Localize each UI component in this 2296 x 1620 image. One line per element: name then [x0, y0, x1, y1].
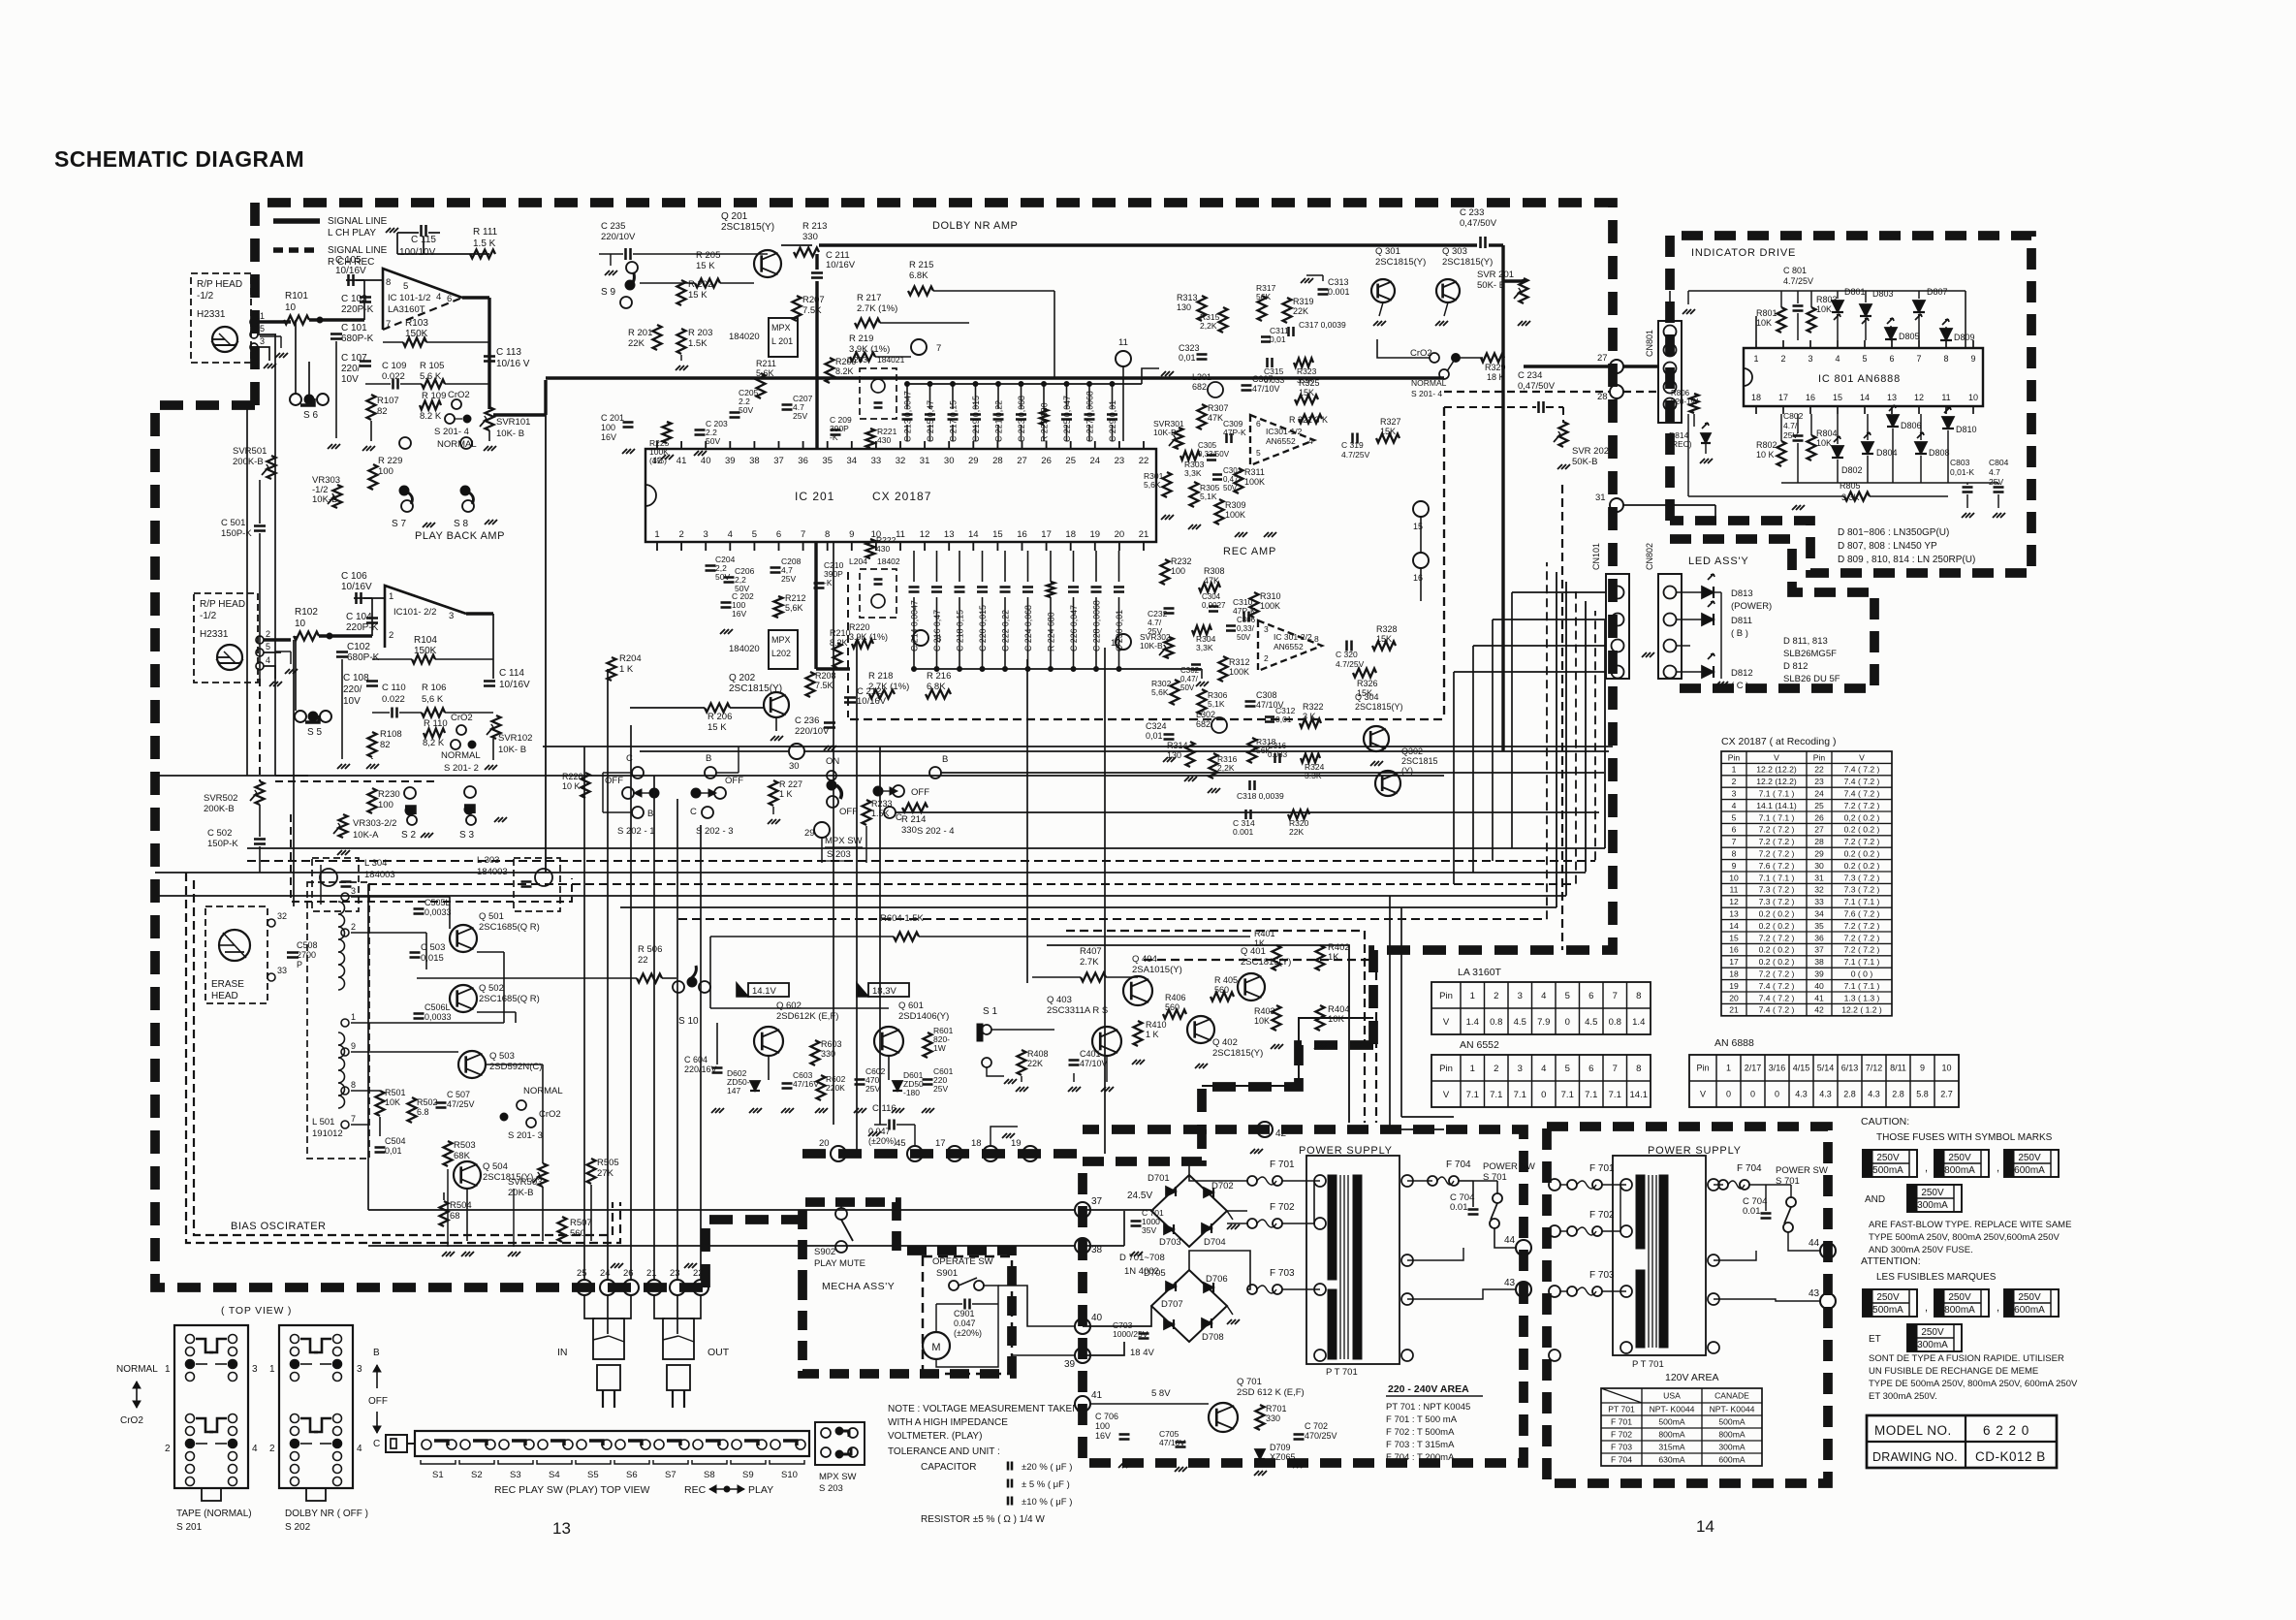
- svg-text:42: 42: [1275, 1128, 1287, 1139]
- svg-text:4.7/: 4.7/: [1783, 421, 1798, 430]
- svg-text:4: 4: [1308, 436, 1313, 446]
- svg-text:6: 6: [1732, 825, 1737, 835]
- svg-text:12.2 ( 1.2 ): 12.2 ( 1.2 ): [1841, 1005, 1882, 1015]
- svg-text:(Y): (Y): [1401, 766, 1413, 776]
- svg-text:0,01: 0,01: [1179, 353, 1196, 363]
- svg-text:250V: 250V: [2018, 1292, 2041, 1303]
- resistor R317: [1258, 296, 1267, 321]
- svg-text:25V: 25V: [1989, 477, 2003, 487]
- capacitor C301: [1212, 473, 1222, 476]
- capacitor C803: [1963, 486, 1973, 489]
- svg-text:C 223 0,068: C 223 0,068: [1017, 396, 1026, 442]
- resistor R803: [1808, 307, 1816, 333]
- svg-text:F 704 : T 200mA: F 704 : T 200mA: [1386, 1452, 1455, 1463]
- svg-text:4: 4: [728, 529, 733, 540]
- svg-text:17: 17: [1778, 393, 1788, 402]
- svg-text:10/16V: 10/16V: [335, 266, 366, 276]
- svg-text:7.4 ( 7.2 ): 7.4 ( 7.2 ): [1759, 1005, 1795, 1015]
- svg-text:12: 12: [920, 529, 930, 540]
- svg-text:7: 7: [1613, 991, 1618, 1001]
- CrO2 switch S201-4 top: [452, 399, 461, 409]
- svg-text:R 205: R 205: [696, 250, 720, 261]
- svg-text:S 1: S 1: [983, 1006, 997, 1017]
- svg-text:S 8: S 8: [454, 519, 468, 529]
- capacitor C317: [1287, 327, 1290, 336]
- resistor R505: [587, 1159, 596, 1184]
- svg-text:CN801: CN801: [1645, 330, 1654, 357]
- svg-text:2: 2: [351, 922, 356, 932]
- svg-text:0,47/: 0,47/: [1180, 675, 1199, 683]
- svg-text:SIGNAL LINE: SIGNAL LINE: [328, 216, 388, 227]
- svg-text:7.1 ( 7.1 ): 7.1 ( 7.1 ): [1759, 788, 1795, 798]
- svg-text:2.7K (1%): 2.7K (1%): [857, 303, 897, 314]
- dashed signal vertical 1612: [1561, 485, 1563, 950]
- svg-text:82: 82: [377, 406, 388, 417]
- svg-text:R308: R308: [1204, 566, 1225, 576]
- bus indicator bottom: [1781, 482, 1998, 484]
- svg-text:24: 24: [1814, 788, 1824, 798]
- capacitor C319: [1351, 433, 1354, 444]
- resistor R213: [794, 248, 819, 257]
- resistor R220: [852, 640, 873, 649]
- svg-text:34: 34: [847, 456, 858, 466]
- node 44 ps2: [1820, 1243, 1836, 1258]
- svg-text:7.2 ( 7.2 ): 7.2 ( 7.2 ): [1844, 921, 1880, 931]
- transistor Q602: [754, 1027, 783, 1056]
- svg-text:32: 32: [1814, 885, 1824, 895]
- svg-text:LED ASS'Y: LED ASS'Y: [1688, 556, 1749, 567]
- svg-text:,: ,: [1925, 1162, 1928, 1174]
- svg-text:2SA1015(Y): 2SA1015(Y): [1132, 965, 1182, 975]
- svg-text:47P-K: 47P-K: [1223, 428, 1246, 437]
- svg-text:R 321 3 K: R 321 3 K: [1289, 415, 1328, 425]
- dashed signal below heads: [259, 679, 261, 781]
- svg-text:1 K: 1 K: [619, 664, 634, 675]
- switch S9: [628, 273, 634, 287]
- svg-text:R 206: R 206: [708, 712, 732, 722]
- svg-text:2SD592N(C): 2SD592N(C): [489, 1062, 542, 1072]
- svg-text:32: 32: [896, 456, 906, 466]
- svg-text:L 304: L 304: [364, 858, 387, 869]
- svg-text:S 203: S 203: [819, 1483, 843, 1494]
- diode D809: [1940, 329, 1952, 340]
- MPX SW S203 box bottom: [815, 1422, 865, 1465]
- R/P head 2 box: [194, 593, 258, 683]
- svg-text:R 216: R 216: [927, 671, 951, 682]
- capacitor C234: [1537, 401, 1540, 413]
- svg-text:7: 7: [801, 529, 805, 540]
- capacitor C901: [963, 1299, 966, 1310]
- svg-text:16V: 16V: [732, 609, 746, 619]
- resistor R501: [376, 1091, 385, 1116]
- svg-text:C: C: [626, 753, 633, 764]
- fuse symbol 800mA: [1934, 1150, 1989, 1177]
- svg-text:10: 10: [295, 619, 306, 629]
- svg-text:10K: 10K: [1756, 318, 1772, 328]
- svg-text:3: 3: [449, 611, 454, 621]
- svg-text:50V: 50V: [706, 436, 720, 446]
- svg-text:R313: R313: [1177, 293, 1198, 302]
- svg-text:C 222 0,22: C 222 0,22: [1001, 610, 1011, 651]
- pot SVR502: [256, 781, 265, 805]
- svg-text:7.3 ( 7.2 ): 7.3 ( 7.2 ): [1844, 885, 1880, 895]
- svg-text:MODEL NO.: MODEL NO.: [1874, 1423, 1952, 1438]
- svg-text:R/P HEAD: R/P HEAD: [197, 279, 242, 290]
- resistor R603: [811, 1040, 820, 1065]
- capacitor C702: [1294, 1433, 1305, 1436]
- svg-text:8: 8: [936, 634, 941, 645]
- svg-text:NPT- K0044: NPT- K0044: [1650, 1405, 1695, 1414]
- svg-text:5,6K: 5,6K: [1144, 480, 1161, 490]
- capacitor C204: [706, 564, 716, 567]
- svg-text:7.3 ( 7.2 ): 7.3 ( 7.2 ): [1844, 873, 1880, 882]
- svg-text:C802: C802: [1783, 411, 1804, 421]
- ground cn101: [1677, 645, 1690, 647]
- svg-text:OFF: OFF: [911, 787, 929, 798]
- svg-text:IC101- 2/2: IC101- 2/2: [393, 607, 436, 618]
- svg-text:50V: 50V: [1180, 683, 1195, 692]
- svg-text:630mA: 630mA: [1658, 1455, 1684, 1465]
- resistor R504: [440, 1201, 449, 1226]
- svg-text:Q 501: Q 501: [479, 911, 504, 922]
- transistor Q302: [1375, 771, 1400, 796]
- op-amp IC301-2/2: [1258, 620, 1322, 671]
- svg-text:0,47/50V: 0,47/50V: [1460, 218, 1497, 229]
- svg-text:VOLTMETER. (PLAY): VOLTMETER. (PLAY): [888, 1431, 982, 1442]
- svg-text:4.7/25V: 4.7/25V: [1336, 659, 1365, 669]
- capacitor C115: [420, 225, 423, 237]
- resistor R507: [558, 1217, 567, 1242]
- svg-text:IC 101-1/2: IC 101-1/2: [388, 293, 430, 303]
- svg-text:23: 23: [1115, 456, 1125, 466]
- resistor R404: [1316, 1005, 1325, 1031]
- svg-text:0.2 ( 0.2 ): 0.2 ( 0.2 ): [1844, 825, 1880, 835]
- resistor R318: [1248, 738, 1257, 763]
- svg-text:C 106: C 106: [341, 571, 367, 582]
- svg-text:7: 7: [936, 343, 941, 354]
- node 7 circle: [911, 339, 927, 355]
- IC201 bottom pins 1-21: [656, 542, 658, 551]
- svg-text:SVR503: SVR503: [508, 1177, 542, 1188]
- IC201 top pins 42-22: [656, 441, 658, 449]
- svg-text:C 227 0,0068: C 227 0,0068: [1085, 391, 1095, 442]
- svg-text:9: 9: [1732, 861, 1737, 871]
- R/P head 1 pins: [250, 318, 258, 326]
- svg-text:23: 23: [670, 1268, 680, 1279]
- svg-text:R 202: R 202: [688, 279, 712, 290]
- svg-text:27: 27: [1597, 353, 1608, 364]
- svg-text:NPT- K0044: NPT- K0044: [1710, 1405, 1755, 1414]
- svg-text:D 801~806 : LN350GP(U): D 801~806 : LN350GP(U): [1838, 527, 1949, 538]
- svg-text:D802: D802: [1841, 465, 1863, 475]
- svg-text:680P-K: 680P-K: [347, 652, 380, 663]
- svg-text:21: 21: [646, 1268, 657, 1279]
- capacitor bank above IC201: [906, 384, 908, 409]
- svg-text:-1/2: -1/2: [197, 291, 214, 302]
- svg-text:34: 34: [1814, 908, 1824, 918]
- svg-text:1: 1: [165, 1364, 171, 1375]
- main schematic dashed border: [255, 203, 1613, 1045]
- svg-text:S1: S1: [432, 1470, 444, 1480]
- svg-text:2.8: 2.8: [1843, 1090, 1856, 1099]
- svg-text:R 405: R 405: [1214, 975, 1238, 985]
- svg-text:REC PLAY SW (PLAY) TOP VIEW: REC PLAY SW (PLAY) TOP VIEW: [494, 1484, 650, 1496]
- transformer L501 box: [307, 882, 369, 1159]
- svg-text:1W: 1W: [933, 1043, 946, 1053]
- op-amp IC101-1/2: [383, 269, 462, 330]
- svg-text:22K: 22K: [628, 338, 645, 349]
- svg-text:500mA: 500mA: [1658, 1417, 1684, 1427]
- resistor R102: [294, 632, 319, 641]
- svg-text:26: 26: [623, 1268, 634, 1279]
- svg-text:43: 43: [1504, 1278, 1516, 1288]
- svg-text:VR303-2/2: VR303-2/2: [353, 818, 396, 829]
- svg-text:R 109: R 109: [422, 391, 446, 401]
- svg-text:7.1: 7.1: [1490, 1090, 1502, 1100]
- svg-text:R804: R804: [1816, 429, 1838, 438]
- svg-text:Q 504: Q 504: [483, 1161, 508, 1172]
- svg-text:37: 37: [1091, 1196, 1103, 1207]
- svg-text:14: 14: [1729, 921, 1739, 931]
- svg-text:26: 26: [1814, 812, 1824, 822]
- transistor Q402: [1187, 1016, 1214, 1043]
- resistor R402: [1316, 945, 1325, 970]
- svg-text:5,6K: 5,6K: [756, 368, 774, 378]
- svg-text:4: 4: [1541, 991, 1546, 1001]
- capacitor C201: [623, 421, 634, 424]
- svg-text:B: B: [942, 754, 948, 765]
- resistor R226: [582, 773, 590, 798]
- svg-text:V: V: [1859, 752, 1865, 762]
- svg-text:2.7K: 2.7K: [1080, 957, 1099, 968]
- svg-text:D702: D702: [1211, 1181, 1234, 1191]
- svg-text:R801: R801: [1756, 308, 1777, 318]
- wire bus horizontal 1: [543, 746, 1613, 747]
- svg-text:Pin: Pin: [1439, 991, 1453, 1001]
- svg-text:C 801: C 801: [1783, 266, 1807, 275]
- resistor R304: [1192, 626, 1211, 635]
- svg-text:14.1 (14.1): 14.1 (14.1): [1756, 801, 1797, 810]
- svg-text:CAUTION:: CAUTION:: [1861, 1116, 1909, 1128]
- svg-text:100: 100: [378, 800, 393, 810]
- svg-text:5/14: 5/14: [1817, 1064, 1835, 1073]
- svg-text:C: C: [373, 1439, 380, 1449]
- svg-text:8.2K: 8.2K: [830, 638, 848, 648]
- svg-text:300mA: 300mA: [1917, 1200, 1948, 1211]
- capacitor C110: [391, 708, 393, 718]
- switch S201 top view: [174, 1325, 248, 1488]
- resistor R410: [1134, 1021, 1143, 1046]
- svg-text:560: 560: [1214, 985, 1229, 995]
- svg-text:4.7: 4.7: [1989, 467, 2000, 477]
- svg-text:13: 13: [1887, 393, 1897, 402]
- svg-text:5 8V: 5 8V: [1151, 1388, 1171, 1399]
- svg-text:7.4 ( 7.2 ): 7.4 ( 7.2 ): [1759, 981, 1795, 991]
- svg-text:NORMAL: NORMAL: [116, 1364, 158, 1375]
- svg-text:2,2K: 2,2K: [1217, 763, 1235, 773]
- svg-text:1: 1: [269, 1364, 275, 1375]
- svg-text:( TOP VIEW ): ( TOP VIEW ): [221, 1305, 292, 1317]
- svg-text:0: 0: [1775, 1090, 1779, 1099]
- svg-text:7.2 ( 7.2 ): 7.2 ( 7.2 ): [1759, 825, 1795, 835]
- svg-text:8: 8: [1314, 634, 1319, 644]
- wire bias bottom: [379, 1117, 381, 1136]
- svg-text:2: 2: [678, 529, 683, 540]
- svg-text:8/11: 8/11: [1890, 1064, 1906, 1073]
- svg-text:3: 3: [351, 886, 356, 896]
- motor M: [923, 1332, 950, 1359]
- svg-text:(±20%): (±20%): [954, 1328, 982, 1338]
- svg-text:15: 15: [1729, 933, 1739, 942]
- dashed border around playback L304 region: [291, 814, 572, 902]
- resistor R207: [793, 296, 802, 321]
- svg-text:18: 18: [1729, 969, 1739, 978]
- resistor R313: [1198, 296, 1207, 321]
- svg-text:25V: 25V: [793, 411, 807, 421]
- svg-text:36: 36: [1814, 933, 1824, 942]
- node 8 circle: [913, 630, 928, 646]
- svg-text:47K: 47K: [1204, 576, 1219, 586]
- svg-text:INDICATOR DRIVE: INDICATOR DRIVE: [1691, 247, 1796, 259]
- svg-text:7.2 ( 7.2 ): 7.2 ( 7.2 ): [1759, 837, 1795, 846]
- svg-text:( B ): ( B ): [1731, 628, 1748, 639]
- svg-text:1.4: 1.4: [1632, 1017, 1645, 1028]
- svg-text:IC 801 AN6888: IC 801 AN6888: [1818, 373, 1901, 385]
- svg-text:30: 30: [1814, 861, 1824, 871]
- resistor R217: [855, 319, 880, 328]
- ground block1: [328, 444, 332, 449]
- svg-text:R 111: R 111: [473, 227, 498, 238]
- svg-text:18: 18: [971, 1138, 982, 1149]
- resistor R225: [663, 422, 672, 443]
- svg-text:4.7/25V: 4.7/25V: [1341, 450, 1370, 460]
- svg-text:220/10V: 220/10V: [601, 232, 636, 242]
- resistor R805: [1844, 492, 1870, 501]
- svg-text:68K: 68K: [454, 1151, 471, 1161]
- svg-text:40: 40: [701, 456, 711, 466]
- svg-text:R410: R410: [1146, 1020, 1167, 1030]
- erase head pins: [267, 919, 275, 927]
- svg-text:C 221 0,22: C 221 0,22: [994, 400, 1004, 442]
- svg-text:D 701~708: D 701~708: [1119, 1253, 1165, 1263]
- svg-text:1000/25V: 1000/25V: [1113, 1329, 1148, 1339]
- SVR301 pot: [1175, 428, 1183, 449]
- svg-text:ET 300mA 250V.: ET 300mA 250V.: [1869, 1391, 1937, 1402]
- svg-text:USA: USA: [1663, 1391, 1681, 1401]
- svg-text:10/16 V: 10/16 V: [496, 359, 530, 369]
- OUT jack: [654, 1295, 665, 1318]
- node 12 circle: [1116, 634, 1131, 650]
- svg-text:S 5: S 5: [307, 727, 322, 738]
- model number table: [1867, 1415, 2057, 1468]
- svg-text:0,0033: 0,0033: [425, 907, 452, 917]
- svg-text:36: 36: [798, 456, 808, 466]
- svg-text:Q 503: Q 503: [489, 1051, 515, 1062]
- svg-text:19: 19: [1090, 529, 1101, 540]
- svg-text:7.4 ( 7.2 ): 7.4 ( 7.2 ): [1844, 777, 1880, 786]
- indicator drive dashed box: [1670, 236, 2031, 573]
- svg-text:6: 6: [447, 294, 452, 304]
- svg-text:±20 % ( μF ): ±20 % ( μF ): [1022, 1462, 1072, 1473]
- svg-text:B: B: [706, 753, 711, 764]
- svg-text:10K-B: 10K-B: [312, 494, 337, 505]
- svg-text:2SD1406(Y): 2SD1406(Y): [898, 1011, 949, 1022]
- dashed signal trimmer row: [275, 780, 434, 782]
- svg-text:R232: R232: [1171, 556, 1192, 566]
- svg-text:TAPE (NORMAL): TAPE (NORMAL): [176, 1509, 252, 1519]
- svg-text:18: 18: [1065, 529, 1076, 540]
- svg-text:14: 14: [1860, 393, 1870, 402]
- svg-text:MPX SW: MPX SW: [819, 1472, 857, 1482]
- svg-text:P: P: [297, 960, 302, 969]
- svg-text:D807: D807: [1927, 287, 1948, 297]
- capacitor C109: [392, 379, 394, 390]
- svg-text:184020: 184020: [729, 332, 760, 342]
- svg-text:0.047: 0.047: [868, 1127, 891, 1136]
- svg-text:5: 5: [1862, 354, 1867, 364]
- svg-text:REC: REC: [684, 1484, 707, 1496]
- transistor Q601: [874, 1027, 903, 1056]
- svg-text:F 701 : T 500 mA: F 701 : T 500 mA: [1386, 1414, 1458, 1425]
- svg-text:7.2 ( 7.2 ): 7.2 ( 7.2 ): [1759, 848, 1795, 858]
- svg-text:MPX: MPX: [771, 323, 791, 333]
- svg-text:10 K: 10 K: [1756, 450, 1775, 460]
- inductor L204 box: [860, 569, 896, 618]
- resistor R503: [444, 1141, 453, 1166]
- svg-text:2SD612K (E,F): 2SD612K (E,F): [776, 1011, 838, 1022]
- svg-text:F 701: F 701: [1589, 1163, 1615, 1174]
- svg-text:ET: ET: [1869, 1334, 1881, 1345]
- svg-text:100: 100: [601, 423, 615, 432]
- svg-text:35V: 35V: [1142, 1225, 1156, 1235]
- dashed signal route y742: [850, 718, 1444, 720]
- svg-text:C 218 0,15: C 218 0,15: [956, 610, 965, 651]
- led assy dashed box: [1670, 539, 1874, 688]
- svg-text:CD-K012 B: CD-K012 B: [1975, 1449, 2046, 1464]
- svg-text:R 506: R 506: [638, 944, 662, 955]
- svg-text:R 105: R 105: [420, 361, 444, 371]
- capacitor C501: [254, 524, 266, 527]
- resistor R806: [1690, 394, 1699, 413]
- svg-text:29: 29: [968, 456, 979, 466]
- svg-text:0,33/: 0,33/: [1237, 624, 1255, 633]
- svg-text:30: 30: [789, 761, 800, 772]
- svg-text:XZ065: XZ065: [1270, 1452, 1296, 1462]
- svg-text:0,01: 0,01: [1146, 731, 1163, 741]
- resistor R316: [1210, 753, 1218, 778]
- capacitor C505: [414, 907, 425, 910]
- svg-text:3.9K (1%): 3.9K (1%): [849, 344, 890, 355]
- resistor R319: [1283, 298, 1292, 323]
- svg-text:L202: L202: [771, 649, 791, 658]
- svg-text:800mA: 800mA: [1718, 1430, 1745, 1440]
- svg-text:( C ): ( C ): [1731, 681, 1748, 691]
- svg-text:41: 41: [676, 456, 687, 466]
- svg-text:7.1 ( 7.1 ): 7.1 ( 7.1 ): [1844, 981, 1880, 991]
- switch S902: [835, 1208, 847, 1220]
- svg-text:10K: 10K: [1816, 304, 1832, 314]
- svg-text:15: 15: [992, 529, 1003, 540]
- resistor R104 feedback: [412, 655, 435, 664]
- svg-text:1: 1: [1732, 765, 1737, 775]
- svg-text:0.2 ( 0.2 ): 0.2 ( 0.2 ): [1759, 908, 1795, 918]
- resistor R502: [408, 1097, 417, 1123]
- svg-text:7.2 ( 7.2 ): 7.2 ( 7.2 ): [1844, 945, 1880, 955]
- wires head area to bus: [246, 407, 248, 776]
- indicator wires: [1669, 291, 1671, 314]
- resistor R105: [422, 380, 445, 389]
- wire bus horizontal 6: [368, 883, 1576, 885]
